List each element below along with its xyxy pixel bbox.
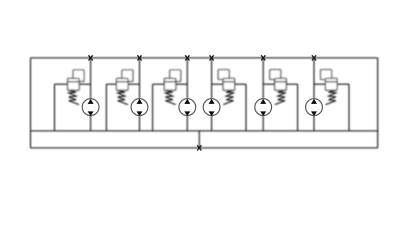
wire: relief branch line unit 4 xyxy=(212,83,246,85)
motor M1: upper flow triangle xyxy=(88,99,94,104)
relief valve RV4: main body xyxy=(223,78,235,90)
motor M5: circle xyxy=(255,99,272,116)
relief valve RV5: main body xyxy=(275,78,287,90)
wire: supply drop line unit 4 xyxy=(211,58,213,99)
relief valve RV2: spring xyxy=(118,90,128,104)
wire: outlet drop to tank unit 2 xyxy=(139,116,141,131)
wire: tank manifold top line xyxy=(31,130,378,132)
wire: relief branch line unit 2 xyxy=(106,83,139,85)
wire: relief branch line unit 3 xyxy=(153,83,188,85)
motor M2: circle xyxy=(131,99,148,116)
motor M3: upper flow triangle xyxy=(184,99,190,104)
wire: outlet drop to tank unit 5 xyxy=(262,116,264,131)
relief valve RV4: spring xyxy=(223,90,233,104)
wire: relief return drop unit 3 xyxy=(152,84,154,131)
relief valve RV3: pilot box xyxy=(170,70,181,81)
relief valve RV1: spring xyxy=(69,90,79,104)
wire: outlet drop to tank unit 6 xyxy=(313,116,315,131)
motor M1: lower flow triangle xyxy=(88,111,94,116)
motor M6: upper flow triangle xyxy=(311,99,317,104)
motor M2: upper flow triangle xyxy=(137,99,143,104)
wire: supply drop line unit 3 xyxy=(186,58,188,99)
wire: relief return drop unit 2 xyxy=(105,84,107,131)
relief valve RV3: spring xyxy=(165,90,175,104)
node: plugged gauge port (x-mark) unit 5 xyxy=(261,55,265,60)
relief valve RV6: pilot box xyxy=(321,70,332,80)
wire: supply drop line unit 6 xyxy=(313,58,315,99)
relief valve RV2: main body xyxy=(117,78,129,90)
relief valve RV5: pilot box xyxy=(270,70,281,80)
wire: relief branch line unit 1 xyxy=(55,83,91,85)
motor M4: circle xyxy=(203,99,220,116)
node: plugged gauge port (x-mark) unit 4 xyxy=(210,55,214,60)
wire: center drain stub to tank port xyxy=(198,131,200,148)
motor M3: lower flow triangle xyxy=(184,111,190,116)
wire: outlet drop to tank unit 4 xyxy=(211,116,213,131)
motor M5: upper flow triangle xyxy=(260,99,266,104)
wire: relief return drop unit 5 xyxy=(297,84,299,131)
motor M2: lower flow triangle xyxy=(137,111,143,116)
motor M1: circle xyxy=(82,99,99,116)
node: plugged gauge port (x-mark) unit 3 xyxy=(185,55,189,60)
relief valve RV1: pilot box xyxy=(73,70,84,81)
wire: relief return drop unit 1 xyxy=(54,84,56,131)
relief valve RV4: pilot box xyxy=(218,70,229,80)
motor M4: lower flow triangle xyxy=(209,111,215,116)
motor M3: circle xyxy=(179,99,196,116)
node: plugged gauge port (x-mark) unit 1 xyxy=(89,55,93,60)
relief valve RV1: main body xyxy=(68,78,80,90)
wire: outlet drop to tank unit 3 xyxy=(186,116,188,131)
node: plugged tank port T (x-mark) xyxy=(197,145,201,150)
wire: relief branch line unit 6 xyxy=(314,83,349,85)
relief valve RV2: pilot box xyxy=(122,70,133,81)
wire: left edge riser xyxy=(30,58,32,148)
wire: tank manifold bottom line xyxy=(31,147,378,149)
wire: outlet drop to tank unit 1 xyxy=(90,116,92,131)
relief valve RV5: spring xyxy=(275,90,285,104)
motor M6: lower flow triangle xyxy=(311,111,317,116)
wire: supply drop line unit 5 xyxy=(262,58,264,99)
node: plugged gauge port (x-mark) unit 2 xyxy=(137,55,141,60)
motor M4: upper flow triangle xyxy=(209,99,215,104)
relief valve RV6: main body xyxy=(326,78,338,90)
wire: relief branch line unit 5 xyxy=(263,83,297,85)
wire: supply drop line unit 2 xyxy=(139,58,141,99)
motor M5: lower flow triangle xyxy=(260,111,266,116)
relief valve RV6: spring xyxy=(326,90,336,104)
wire: supply drop line unit 1 xyxy=(90,58,92,99)
wire: relief return drop unit 6 xyxy=(348,84,350,131)
node: plugged gauge port (x-mark) unit 6 xyxy=(312,55,316,60)
wire: relief return drop unit 4 xyxy=(245,84,247,131)
motor M6: circle xyxy=(306,99,323,116)
relief valve RV3: main body xyxy=(164,78,176,90)
wire: right edge riser xyxy=(377,58,379,148)
wire: top pressure bus P xyxy=(31,57,378,59)
